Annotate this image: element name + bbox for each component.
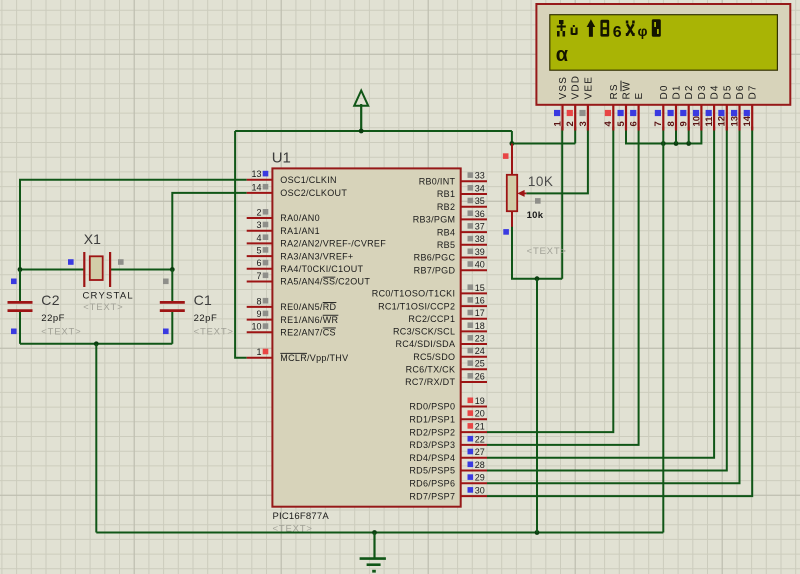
U1 pin 4 stub xyxy=(247,242,273,244)
LCD pin 14 stub xyxy=(751,105,753,131)
wire D2 to bus xyxy=(688,127,690,144)
svg-text:CRYSTAL: CRYSTAL xyxy=(83,290,134,301)
LCD pin 13 state square xyxy=(731,110,737,116)
svg-text:40: 40 xyxy=(475,260,485,270)
svg-text:10k: 10k xyxy=(527,210,544,221)
svg-text:C1: C1 xyxy=(194,292,213,308)
LCD pin 7 stub xyxy=(662,105,664,131)
svg-text:VDD: VDD xyxy=(571,75,582,100)
LCD pin 4 state square xyxy=(605,110,611,116)
U1 pin 38 stub xyxy=(461,244,487,246)
svg-text:3: 3 xyxy=(256,220,261,230)
LCD screen text row 1 xyxy=(557,19,609,37)
LCD pin 9 stub xyxy=(688,105,690,131)
U1 pin 7 stub xyxy=(247,281,273,283)
svg-text:RE0/AN5/RD: RE0/AN5/RD xyxy=(280,302,336,312)
svg-text:RC4/SDI/SDA: RC4/SDI/SDA xyxy=(395,339,455,349)
U1 pin 8 stub xyxy=(247,306,273,308)
U1 pin 6 state square xyxy=(263,260,269,266)
U1 pin 6 stub xyxy=(247,268,273,270)
U1 pin 39 state square xyxy=(468,249,474,255)
svg-text:35: 35 xyxy=(475,196,485,206)
svg-text:24: 24 xyxy=(475,346,485,356)
U1 pin 34 stub xyxy=(461,193,487,195)
wire pin14 to crystal right xyxy=(172,193,246,270)
node power rail junction xyxy=(359,129,364,134)
wire bottom ground rail xyxy=(96,532,663,534)
svg-text:<TEXT>: <TEXT> xyxy=(83,302,123,313)
svg-text:α: α xyxy=(556,44,569,66)
svg-text:29: 29 xyxy=(475,473,485,483)
svg-text:17: 17 xyxy=(475,308,485,318)
wire crystal ground drop xyxy=(95,344,97,533)
svg-text:X1: X1 xyxy=(84,231,101,247)
LCD LCD1 screen xyxy=(550,15,778,70)
LCD LCD1 body xyxy=(536,4,790,105)
svg-text:RB4: RB4 xyxy=(437,227,455,237)
svg-text:8: 8 xyxy=(666,121,677,126)
node pot-top junction xyxy=(510,141,515,146)
svg-text:D3: D3 xyxy=(697,84,708,99)
wire rail corner down to pot/VDD node xyxy=(511,131,513,144)
U1 pin 19 stub xyxy=(461,406,487,408)
svg-text:RE1/AN6/WR: RE1/AN6/WR xyxy=(280,315,338,325)
U1 pin 21 stub xyxy=(461,431,487,433)
U1 pin 33 state square xyxy=(468,172,474,178)
svg-text:RB6/PGC: RB6/PGC xyxy=(414,253,456,263)
svg-text:C2: C2 xyxy=(41,292,60,308)
wire pin13 to crystal left xyxy=(20,180,247,270)
svg-text:8: 8 xyxy=(256,296,261,306)
svg-text:34: 34 xyxy=(475,183,485,193)
svg-text:RC0/T1OSO/T1CKI: RC0/T1OSO/T1CKI xyxy=(372,289,456,299)
U1 pin 9 state square xyxy=(263,311,269,317)
U1 pin 23 state square xyxy=(468,335,474,341)
svg-text:RC3/SCK/SCL: RC3/SCK/SCL xyxy=(393,327,455,337)
svg-text:D4: D4 xyxy=(710,84,721,99)
U1 pin 15 stub xyxy=(461,292,487,294)
U1 pin 17 stub xyxy=(461,318,487,320)
wire pot bottom to VSS xyxy=(512,226,562,278)
wire C1 top lead xyxy=(171,270,173,302)
svg-text:36: 36 xyxy=(475,209,485,219)
svg-text:RC6/TX/CK: RC6/TX/CK xyxy=(406,365,456,375)
U1 pin 37 state square xyxy=(468,223,474,229)
U1 pin 40 state square xyxy=(468,261,474,267)
wire D4 (LCD pin11 to U1 pin27) xyxy=(487,127,714,458)
LCD pin 12 stub xyxy=(726,105,728,131)
U1 pin 17 state square xyxy=(468,310,474,316)
node pot bottom junction xyxy=(535,276,540,281)
capacitor C1 xyxy=(160,302,185,310)
svg-text:6: 6 xyxy=(629,121,640,126)
svg-text:RA5/AN4/SS/C2OUT: RA5/AN4/SS/C2OUT xyxy=(280,277,370,287)
U1 pin 26 stub xyxy=(461,381,487,383)
potentiometer RV1 bottom lead xyxy=(511,211,513,227)
svg-text:6: 6 xyxy=(256,258,261,268)
svg-text:RB1: RB1 xyxy=(437,189,455,199)
svg-text:4: 4 xyxy=(603,121,614,127)
U1 pin 2 state square xyxy=(263,209,269,215)
U1 pin 14 stub xyxy=(247,192,273,194)
svg-text:37: 37 xyxy=(475,222,485,232)
wire VDD (LCD pin2) xyxy=(574,127,576,144)
U1 pin 25 state square xyxy=(468,360,474,366)
svg-text:MCLR/Vpp/THV: MCLR/Vpp/THV xyxy=(280,353,348,363)
wire D0 to ground rail xyxy=(662,127,664,533)
U1 pin 19 state square xyxy=(468,398,474,404)
LCD pin 11 state square xyxy=(706,110,712,116)
svg-text:21: 21 xyxy=(475,422,485,432)
svg-text:10: 10 xyxy=(691,116,702,127)
node C2 top probe square xyxy=(11,279,17,285)
U1 pin 40 stub xyxy=(461,269,487,271)
LCD pin 11 stub xyxy=(713,105,715,131)
svg-text:D6: D6 xyxy=(735,84,746,99)
LCD pin 1 state square xyxy=(554,110,560,116)
U1 pin 14 state square xyxy=(263,184,269,190)
svg-text:RB0/INT: RB0/INT xyxy=(419,177,456,187)
svg-text:RA3/AN3/VREF+: RA3/AN3/VREF+ xyxy=(280,251,353,261)
wire MCLR pull-up (rail to pin 1) xyxy=(235,131,247,358)
svg-text:11: 11 xyxy=(704,116,715,127)
wire RW/D0-D3 ground bus xyxy=(626,127,701,144)
wire C2 top lead xyxy=(19,270,21,302)
LCD pin 2 stub xyxy=(574,105,576,131)
U1 pin 27 state square xyxy=(468,449,474,455)
svg-text:16: 16 xyxy=(475,296,485,306)
U1 pin 35 stub xyxy=(461,206,487,208)
node RV1 wiper probe square xyxy=(535,198,541,204)
LCD pin 7 state square xyxy=(655,110,661,116)
LCD pin 2 state square xyxy=(567,110,573,116)
potentiometer RV1 top lead xyxy=(511,144,513,175)
U1 pin 13 state square xyxy=(263,171,269,177)
IC U1 PIC16F877A body xyxy=(272,168,460,506)
U1 pin 20 stub xyxy=(461,418,487,420)
U1 pin 10 state square xyxy=(263,323,269,329)
potentiometer RV1 wiper arrow xyxy=(517,190,526,197)
LCD pin 10 state square xyxy=(693,110,699,116)
U1 pin 9 stub xyxy=(247,319,273,321)
svg-text:5: 5 xyxy=(256,246,261,256)
svg-text:25: 25 xyxy=(475,359,485,369)
svg-text:D0: D0 xyxy=(659,84,670,99)
U1 pin 7 state square xyxy=(263,273,269,279)
svg-text:OSC2/CLKOUT: OSC2/CLKOUT xyxy=(280,188,347,198)
svg-text:2: 2 xyxy=(565,121,576,126)
U1 pin 38 state square xyxy=(468,236,474,242)
svg-text:RA1/AN1: RA1/AN1 xyxy=(280,226,320,236)
U1 pin 35 state square xyxy=(468,198,474,204)
U1 pin 8 state square xyxy=(263,298,269,304)
node bus-D2 junction xyxy=(686,141,691,146)
svg-text:RD7/PSP7: RD7/PSP7 xyxy=(409,491,455,501)
U1 pin 18 state square xyxy=(468,322,474,328)
U1 pin 16 stub xyxy=(461,305,487,307)
wire VEE (LCD pin3) to pot wiper xyxy=(526,127,588,194)
svg-text:D1: D1 xyxy=(672,84,683,99)
wire C1 bottom lead xyxy=(171,312,173,344)
power arrow (VCC) xyxy=(354,91,368,132)
node crystal left junction xyxy=(18,267,23,272)
crystal X1 xyxy=(84,252,110,287)
node caps bottom junction xyxy=(94,341,99,346)
svg-text:7: 7 xyxy=(256,271,261,281)
U1 pin 5 stub xyxy=(247,255,273,257)
svg-text:RD0/PSP0: RD0/PSP0 xyxy=(409,402,455,412)
svg-text:<TEXT>: <TEXT> xyxy=(41,327,81,338)
U1 pin 39 stub xyxy=(461,257,487,259)
svg-text:26: 26 xyxy=(475,371,485,381)
U1 pin 3 stub xyxy=(247,230,273,232)
U1 pin 3 state square xyxy=(263,222,269,228)
LCD pin 8 stub xyxy=(675,105,677,131)
U1 pin 20 state square xyxy=(468,410,474,416)
LCD pin 5 stub xyxy=(625,105,627,131)
svg-text:12: 12 xyxy=(717,116,728,127)
LCD pin 5 state square xyxy=(618,110,624,116)
U1 pin 27 stub xyxy=(461,457,487,459)
wire VDD link xyxy=(512,143,575,145)
svg-text:RD2/PSP2: RD2/PSP2 xyxy=(409,427,455,437)
svg-text:2: 2 xyxy=(256,207,261,217)
node crystal right junction xyxy=(170,267,175,272)
U1 pin 5 state square xyxy=(263,247,269,253)
LCD pin 4 stub xyxy=(612,105,614,131)
U1 pin 23 stub xyxy=(461,343,487,345)
U1 pin 37 stub xyxy=(461,231,487,233)
svg-text:6: 6 xyxy=(613,24,622,41)
svg-text:22pF: 22pF xyxy=(41,313,65,324)
ground xyxy=(360,533,386,572)
U1 pin 25 stub xyxy=(461,368,487,370)
U1 pin 28 state square xyxy=(468,462,474,468)
node C2 bottom probe square xyxy=(11,329,17,335)
wire caps bottom bus xyxy=(20,343,172,345)
svg-text:7: 7 xyxy=(653,121,664,126)
svg-text:13: 13 xyxy=(729,116,740,127)
svg-text:RC7/RX/DT: RC7/RX/DT xyxy=(405,377,455,387)
node X1 left probe square xyxy=(68,259,74,265)
LCD pin 10 stub xyxy=(700,105,702,131)
U1 pin 21 state square xyxy=(468,423,474,429)
U1 pin 1 stub xyxy=(247,357,273,359)
wire D1 to bus xyxy=(675,127,677,144)
U1 pin 2 stub xyxy=(247,217,273,219)
svg-text:D7: D7 xyxy=(748,84,759,99)
node X1 right probe square xyxy=(118,259,124,265)
svg-text:VEE: VEE xyxy=(583,76,594,100)
svg-text:RB3/PGM: RB3/PGM xyxy=(413,215,456,225)
svg-text:22pF: 22pF xyxy=(194,313,218,324)
U1 pin 26 state square xyxy=(468,373,474,379)
svg-text:E: E xyxy=(634,92,645,100)
U1 pin 13 stub xyxy=(247,179,273,181)
node RV1 top probe square xyxy=(503,153,509,159)
U1 pin 34 state square xyxy=(468,185,474,191)
U1 pin 30 state square xyxy=(468,487,474,493)
LCD pin 3 state square xyxy=(579,110,585,116)
U1 pin 30 stub xyxy=(461,495,487,497)
wire D7 (LCD pin14 to U1 pin30) xyxy=(487,127,752,497)
svg-text:RA2/AN2/VREF-/CVREF: RA2/AN2/VREF-/CVREF xyxy=(280,239,386,249)
svg-text:RA0/AN0: RA0/AN0 xyxy=(280,213,320,223)
svg-text:RB2: RB2 xyxy=(437,202,455,212)
U1 pin 4 state square xyxy=(263,234,269,240)
svg-text:RB5: RB5 xyxy=(437,240,455,250)
svg-text:φ: φ xyxy=(638,23,648,39)
U1 pin 22 state square xyxy=(468,436,474,442)
node C1 top probe square xyxy=(163,279,169,285)
node C1 bottom probe square xyxy=(163,329,169,335)
wire D5 (LCD pin12 to U1 pin28) xyxy=(487,127,727,471)
U1 pin 24 state square xyxy=(468,348,474,354)
svg-text:RW: RW xyxy=(622,81,633,100)
svg-text:RA4/T0CKI/C1OUT: RA4/T0CKI/C1OUT xyxy=(280,264,363,274)
svg-text:RC5/SDO: RC5/SDO xyxy=(413,352,455,362)
node pot ground junction xyxy=(535,530,540,535)
wire top rail xyxy=(235,130,512,132)
U1 pin 29 stub xyxy=(461,482,487,484)
svg-text:<TEXT>: <TEXT> xyxy=(273,524,313,535)
svg-text:RD5/PSP5: RD5/PSP5 xyxy=(409,466,455,476)
node ground tap junction xyxy=(372,530,377,535)
LCD pin 8 state square xyxy=(668,110,674,116)
svg-text:1: 1 xyxy=(256,347,261,357)
svg-text:RE2/AN7/CS: RE2/AN7/CS xyxy=(280,328,336,338)
LCD pin 3 stub xyxy=(587,105,589,131)
svg-text:10: 10 xyxy=(251,322,261,332)
svg-text:13: 13 xyxy=(251,169,261,179)
svg-text:RS: RS xyxy=(609,83,620,99)
node bus-D0 junction xyxy=(661,141,666,146)
wire pot ground drop xyxy=(536,279,538,533)
svg-text:38: 38 xyxy=(475,234,485,244)
svg-text:9: 9 xyxy=(679,121,690,126)
svg-text:4: 4 xyxy=(256,233,261,243)
svg-text:23: 23 xyxy=(475,333,485,343)
svg-text:30: 30 xyxy=(475,486,485,496)
U1 pin 36 stub xyxy=(461,218,487,220)
svg-text:<TEXT>: <TEXT> xyxy=(194,327,234,338)
svg-text:RC1/T1OSI/CCP2: RC1/T1OSI/CCP2 xyxy=(378,301,455,311)
U1 pin 15 state square xyxy=(468,284,474,290)
svg-text:D5: D5 xyxy=(722,84,733,99)
svg-text:18: 18 xyxy=(475,321,485,331)
wire crystal left segment xyxy=(20,269,84,271)
svg-text:10K: 10K xyxy=(528,174,554,189)
svg-text:27: 27 xyxy=(475,447,485,457)
U1 pin 22 stub xyxy=(461,444,487,446)
wire D6 (LCD pin13 to U1 pin29) xyxy=(487,127,740,484)
wire VSS (LCD pin1) xyxy=(561,127,563,279)
node bus-D1 junction xyxy=(674,141,679,146)
svg-text:28: 28 xyxy=(475,460,485,470)
svg-text:RD3/PSP3: RD3/PSP3 xyxy=(409,440,455,450)
svg-text:RD4/PSP4: RD4/PSP4 xyxy=(409,453,455,463)
svg-text:14: 14 xyxy=(251,182,261,192)
wire RS (LCD pin4 to U1 pin21) xyxy=(487,127,613,433)
svg-text:PIC16F877A: PIC16F877A xyxy=(273,511,330,522)
node RV1 bottom probe square xyxy=(503,229,509,235)
svg-text:RC2/CCP1: RC2/CCP1 xyxy=(408,314,455,324)
U1 pin 18 stub xyxy=(461,330,487,332)
svg-text:19: 19 xyxy=(475,396,485,406)
U1 pin 36 state square xyxy=(468,210,474,216)
LCD pin 1 stub xyxy=(561,105,563,131)
svg-text:9: 9 xyxy=(256,309,261,319)
U1 pin 10 stub xyxy=(247,331,273,333)
potentiometer RV1 body xyxy=(507,175,517,211)
U1 pin 28 stub xyxy=(461,470,487,472)
svg-text:U1: U1 xyxy=(272,149,291,166)
U1 pin 29 state square xyxy=(468,474,474,480)
wire E (LCD pin6 to U1 pin22) xyxy=(487,127,639,445)
U1 pin 24 stub xyxy=(461,356,487,358)
svg-text:5: 5 xyxy=(616,121,627,127)
capacitor C2 xyxy=(8,302,33,310)
U1 pin 16 state square xyxy=(468,297,474,303)
LCD pin 13 stub xyxy=(738,105,740,131)
LCD pin 6 state square xyxy=(630,110,636,116)
LCD pin 12 state square xyxy=(718,110,724,116)
svg-text:33: 33 xyxy=(475,171,485,181)
svg-text:RD6/PSP6: RD6/PSP6 xyxy=(409,479,455,489)
wire C2 bottom lead xyxy=(19,312,21,344)
svg-text:15: 15 xyxy=(475,283,485,293)
LCD pin 6 stub xyxy=(637,105,639,131)
svg-text:20: 20 xyxy=(475,409,485,419)
svg-text:<TEXT>: <TEXT> xyxy=(527,246,567,257)
svg-text:3: 3 xyxy=(578,121,589,126)
wire crystal right segment xyxy=(110,269,172,271)
svg-text:39: 39 xyxy=(475,247,485,257)
svg-text:1: 1 xyxy=(552,121,563,127)
svg-text:OSC1/CLKIN: OSC1/CLKIN xyxy=(280,175,337,185)
svg-text:14: 14 xyxy=(742,115,753,126)
svg-text:22: 22 xyxy=(475,434,485,444)
LCD pin 9 state square xyxy=(680,110,686,116)
svg-text:D2: D2 xyxy=(684,84,695,99)
U1 pin 1 state square xyxy=(263,349,269,355)
svg-text:RB7/PGD: RB7/PGD xyxy=(414,265,456,275)
LCD pin 14 state square xyxy=(744,110,750,116)
svg-text:RD1/PSP1: RD1/PSP1 xyxy=(409,415,455,425)
U1 pin 33 stub xyxy=(461,180,487,182)
svg-text:VSS: VSS xyxy=(558,76,569,100)
